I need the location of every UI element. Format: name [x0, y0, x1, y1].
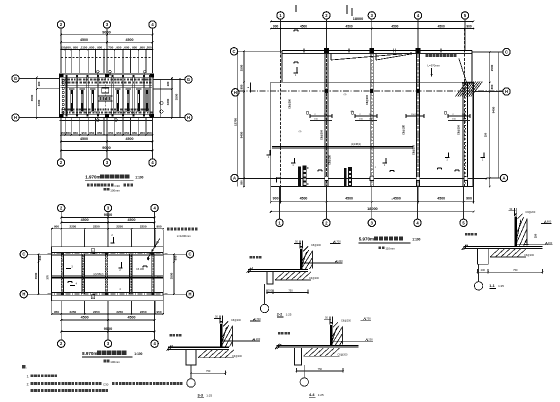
svg-text:4500: 4500: [126, 38, 134, 42]
svg-text:4500: 4500: [300, 24, 307, 28]
svg-text:950: 950: [116, 45, 121, 49]
svg-text:850: 850: [124, 131, 129, 135]
svg-text:C: C: [189, 252, 192, 257]
svg-text:4500: 4500: [437, 197, 445, 201]
svg-text:4500: 4500: [438, 24, 445, 28]
svg-text:4500: 4500: [393, 197, 401, 201]
svg-text:-0.700: -0.700: [333, 240, 341, 244]
svg-text:150 150: 150 150: [411, 114, 420, 116]
svg-text:3-3: 3-3: [198, 394, 204, 398]
svg-text:1-1: 1-1: [489, 284, 495, 288]
svg-text:950: 950: [89, 45, 94, 49]
svg-text:C8@150: C8@150: [329, 154, 332, 164]
svg-text:9000: 9000: [104, 213, 112, 217]
svg-text:C8@200: C8@200: [231, 319, 242, 322]
svg-text:2.: 2.: [27, 383, 30, 387]
svg-text:800: 800: [38, 255, 42, 260]
svg-text:(3): (3): [351, 111, 354, 113]
svg-text:900: 900: [156, 225, 161, 229]
svg-text:2250: 2250: [93, 310, 100, 314]
svg-text:2250: 2250: [116, 225, 123, 229]
svg-text:900: 900: [273, 197, 279, 201]
svg-text:C8@200: C8@200: [320, 129, 324, 140]
svg-text:2250: 2250: [140, 310, 147, 314]
svg-text:1.970m: 1.970m: [85, 175, 100, 180]
svg-text:C8@200: C8@200: [311, 244, 322, 247]
svg-text:9400: 9400: [240, 131, 244, 138]
svg-text:4500: 4500: [80, 137, 88, 141]
svg-text:2250: 2250: [93, 225, 100, 229]
svg-text:250: 250: [484, 132, 488, 137]
svg-text:4500: 4500: [126, 137, 134, 141]
svg-text:C8@150: C8@150: [457, 124, 461, 135]
svg-text:(3): (3): [299, 131, 302, 133]
svg-text:750: 750: [108, 45, 113, 49]
svg-text:H: H: [14, 115, 17, 120]
svg-text:A: A: [233, 176, 236, 181]
svg-text:900: 900: [466, 197, 472, 201]
svg-text:(2)24B(2): (2)24B(2): [351, 143, 361, 146]
svg-text:4500: 4500: [346, 24, 353, 28]
svg-text:180: 180: [37, 81, 41, 86]
svg-text:750: 750: [513, 268, 518, 272]
svg-text:L=1200mm: L=1200mm: [177, 234, 192, 238]
svg-text:C: C: [22, 252, 25, 257]
svg-text:2250: 2250: [116, 310, 123, 314]
svg-text:1:100: 1:100: [135, 176, 143, 180]
svg-text:900: 900: [54, 225, 59, 229]
svg-text:200: 200: [147, 45, 152, 49]
svg-text:3300: 3300: [166, 98, 170, 105]
svg-text:2500: 2500: [240, 64, 244, 71]
svg-text:900: 900: [466, 24, 472, 28]
svg-text:200: 200: [268, 288, 273, 292]
svg-text:850: 850: [132, 131, 137, 135]
svg-text:200: 200: [481, 268, 486, 272]
svg-text:100mm: 100mm: [110, 360, 120, 364]
svg-text:950: 950: [147, 131, 152, 135]
svg-text:-0.700: -0.700: [253, 317, 261, 321]
svg-text:750: 750: [206, 369, 211, 373]
svg-text:1:100: 1:100: [134, 352, 142, 356]
svg-text:C6@200: C6@200: [232, 355, 243, 358]
svg-text:2250: 2250: [70, 310, 77, 314]
svg-text:950: 950: [132, 45, 137, 49]
svg-text:1:25: 1:25: [206, 394, 212, 398]
svg-text:950: 950: [54, 310, 59, 314]
svg-text:H: H: [189, 292, 192, 297]
svg-text:C8@200: C8@200: [289, 98, 292, 108]
svg-text:(3): (3): [344, 94, 347, 96]
svg-text:4500: 4500: [81, 218, 89, 222]
svg-text:12700: 12700: [233, 118, 237, 126]
svg-text:180: 180: [166, 81, 170, 86]
svg-text:800: 800: [240, 180, 244, 185]
svg-text:850: 850: [73, 131, 78, 135]
svg-text:950: 950: [140, 131, 145, 135]
svg-text:8.970m: 8.970m: [82, 351, 97, 356]
svg-text:1.: 1.: [27, 375, 30, 379]
svg-text:(2)29B(2): (2)29B(2): [93, 273, 103, 276]
svg-text:18000: 18000: [367, 207, 378, 211]
svg-text:600: 600: [124, 45, 129, 49]
svg-text:4500: 4500: [391, 24, 398, 28]
svg-text:800: 800: [240, 84, 244, 89]
svg-text:G: G: [14, 76, 17, 81]
svg-text:250: 250: [534, 233, 538, 238]
svg-text:C8.19B: C8.19B: [136, 268, 144, 271]
svg-text:900: 900: [273, 24, 279, 28]
svg-text:H: H: [234, 90, 237, 95]
svg-text:2250: 2250: [140, 225, 147, 229]
svg-text:750: 750: [288, 288, 293, 292]
svg-text:3500: 3500: [169, 272, 173, 279]
svg-text:370: 370: [46, 275, 50, 280]
svg-text:H: H: [22, 292, 25, 297]
svg-text:9000: 9000: [104, 327, 112, 331]
svg-text:800: 800: [490, 84, 494, 89]
svg-text:950: 950: [97, 45, 102, 49]
svg-text:3500: 3500: [175, 93, 179, 100]
svg-text:C: C: [233, 49, 236, 54]
svg-text:9000: 9000: [102, 146, 110, 150]
svg-text:C30: C30: [115, 184, 121, 188]
svg-text:1:100: 1:100: [412, 238, 420, 242]
svg-text:C8@200: C8@200: [411, 144, 415, 155]
svg-text:850: 850: [89, 131, 94, 135]
svg-text:1:25: 1:25: [318, 393, 324, 397]
svg-text:800: 800: [174, 255, 178, 260]
svg-text:G: G: [187, 77, 190, 82]
svg-text:850: 850: [97, 131, 102, 135]
svg-text:2250: 2250: [70, 225, 77, 229]
svg-text:1150: 1150: [81, 45, 88, 49]
svg-text:C30: C30: [103, 382, 109, 386]
svg-text:C6@200: C6@200: [524, 254, 535, 257]
svg-text:950: 950: [116, 131, 121, 135]
svg-text:950: 950: [81, 131, 86, 135]
svg-text:850: 850: [66, 131, 71, 135]
svg-text:4500: 4500: [80, 38, 88, 42]
svg-text:H: H: [187, 115, 190, 120]
svg-text:2-2: 2-2: [277, 313, 283, 317]
svg-text:C8@200: C8@200: [341, 320, 352, 323]
svg-text:950: 950: [140, 45, 145, 49]
svg-text:-0.200: -0.200: [335, 259, 343, 263]
svg-text:9000: 9000: [102, 30, 110, 34]
svg-text:C8@200: C8@200: [525, 211, 536, 214]
svg-text:1:25: 1:25: [498, 284, 504, 288]
svg-text:5.970m: 5.970m: [359, 237, 374, 242]
svg-text:4.250: 4.250: [366, 338, 373, 342]
svg-text:3300: 3300: [37, 99, 41, 106]
svg-text:3500: 3500: [30, 94, 34, 101]
svg-text:5.300: 5.300: [546, 241, 553, 245]
svg-text:C8@200: C8@200: [365, 94, 369, 105]
svg-text:4-4: 4-4: [309, 393, 315, 397]
svg-text:-0.200: -0.200: [253, 337, 261, 341]
svg-text::: :: [26, 366, 27, 370]
svg-text:C6@200: C6@200: [338, 353, 349, 356]
svg-text:A: A: [503, 176, 506, 181]
svg-text:110mm: 110mm: [385, 247, 395, 251]
svg-text:2500: 2500: [490, 64, 494, 71]
svg-text:4500: 4500: [300, 197, 308, 201]
svg-text:850: 850: [108, 131, 113, 135]
svg-text:1:25: 1:25: [286, 313, 292, 317]
svg-text:3500: 3500: [34, 272, 38, 279]
svg-text:750: 750: [318, 367, 323, 371]
svg-text:L=970mm: L=970mm: [428, 63, 441, 67]
svg-text:18000: 18000: [353, 17, 364, 21]
svg-text:5.800: 5.800: [545, 220, 552, 224]
svg-text:9400: 9400: [491, 106, 495, 113]
svg-text:950: 950: [73, 45, 78, 49]
svg-text:4500: 4500: [128, 218, 136, 222]
svg-text:4500: 4500: [128, 316, 136, 320]
svg-text:100mm: 100mm: [110, 188, 120, 192]
svg-text:C8@150: C8@150: [403, 124, 406, 134]
svg-text:950: 950: [66, 45, 71, 49]
svg-text:C: C: [505, 50, 508, 55]
svg-text:950: 950: [156, 310, 161, 314]
svg-text:4500: 4500: [81, 316, 89, 320]
svg-text:C6@200: C6@200: [309, 277, 320, 280]
svg-text:4500: 4500: [345, 197, 353, 201]
svg-text:H: H: [505, 89, 508, 94]
svg-text:4.750: 4.750: [364, 317, 371, 321]
